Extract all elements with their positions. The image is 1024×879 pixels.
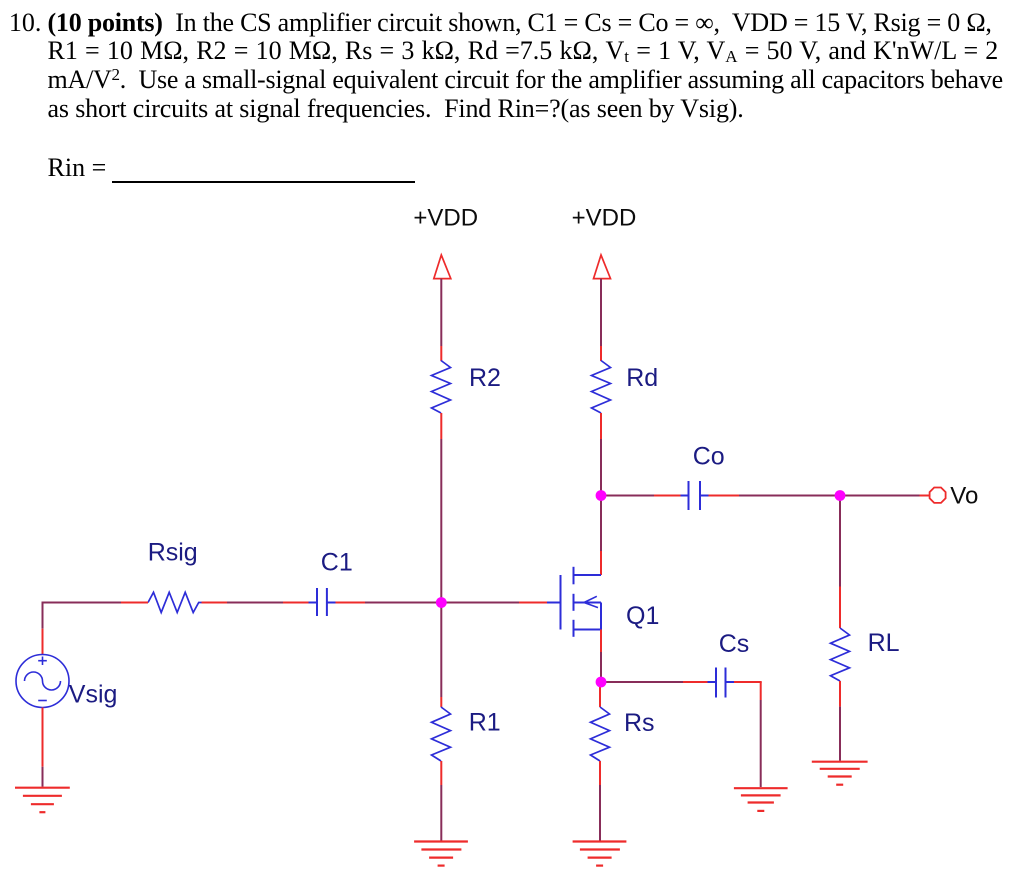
svg-text:+VDD: +VDD — [572, 204, 637, 231]
junction gate node — [436, 597, 447, 608]
wire VDD1 to R2 — [440, 279, 442, 346]
svg-text:Rd: Rd — [626, 364, 658, 392]
pin Rsig right — [202, 602, 228, 604]
capacitor Cs — [708, 668, 735, 698]
wire drain node right — [601, 495, 654, 497]
pin R1 bottom — [440, 761, 442, 785]
capacitor Co — [681, 481, 709, 510]
svg-text:Co: Co — [693, 443, 725, 471]
pin R2 top — [440, 346, 442, 361]
VDD arrow 2 — [594, 255, 611, 279]
svg-text:R2: R2 — [469, 364, 501, 392]
wire Rs to ground — [599, 785, 601, 841]
off-page connector Vo octagon — [930, 488, 946, 503]
wire C1 to gate node — [365, 602, 441, 604]
resistor Rsig — [148, 592, 202, 612]
resistor Rs — [591, 707, 610, 761]
transistor Q1 — [547, 567, 601, 637]
pin C1 left — [283, 602, 309, 604]
wire VDD2 to Rd — [600, 279, 602, 346]
ground Cs — [734, 788, 788, 811]
svg-text:Rs: Rs — [624, 709, 655, 737]
wire RL node down — [839, 496, 841, 587]
ground Rs — [573, 842, 627, 866]
pin Q1 source — [600, 630, 602, 653]
wire corner down — [760, 682, 762, 700]
pin Rsig left — [121, 602, 148, 604]
pin RL top — [839, 587, 841, 629]
pin R1 top — [440, 697, 442, 707]
svg-text:Cs: Cs — [719, 630, 750, 658]
wire gate node to gate — [441, 602, 519, 604]
resistor RL — [831, 628, 850, 681]
wire corner down — [42, 602, 44, 629]
wire source node right — [601, 681, 683, 683]
resistor R1 — [432, 707, 451, 761]
wire RL node to Vo — [840, 495, 920, 497]
svg-text:C1: C1 — [321, 549, 353, 577]
svg-text:Q1: Q1 — [626, 602, 659, 630]
wire corner to Rsig — [42, 602, 122, 604]
svg-text:RL: RL — [868, 629, 900, 657]
wire RL to ground — [839, 707, 841, 761]
wire Cs to corner — [734, 681, 762, 683]
ground RL — [812, 762, 868, 785]
ground R1 — [414, 842, 468, 866]
junction RL node — [835, 490, 846, 501]
pin Q1 drain — [600, 551, 602, 575]
pin R2 bottom — [440, 413, 442, 439]
pin C1 right — [336, 602, 366, 604]
wire R1 to ground — [440, 785, 442, 841]
wire Rsig to C1 — [227, 602, 283, 604]
pin Rd top — [600, 346, 602, 361]
source Vsig — [16, 655, 69, 708]
pin Vsig minus — [42, 708, 44, 767]
wire Rd to drain node — [600, 439, 602, 496]
VDD arrow 1 — [434, 255, 451, 279]
wire source node down — [600, 682, 602, 687]
wire R2 bottom to gate node — [440, 439, 442, 603]
capacitor C1 — [309, 588, 336, 616]
resistor R2 — [432, 361, 451, 414]
wire Co to RL node — [709, 495, 740, 497]
svg-text:Vsig: Vsig — [69, 681, 118, 709]
svg-text:Vo: Vo — [950, 483, 978, 510]
junction drain node — [596, 490, 607, 501]
svg-text:Rsig: Rsig — [148, 539, 198, 567]
junction source node — [596, 677, 607, 688]
pin Rs top — [599, 687, 601, 707]
wire source to node — [600, 652, 602, 682]
wire Vsig to ground — [42, 767, 44, 787]
wire gate node down — [440, 603, 442, 698]
wire drain node down — [600, 496, 602, 559]
svg-text:R1: R1 — [469, 709, 501, 737]
pin Q1 gate — [519, 602, 547, 604]
ground Vsig — [15, 788, 70, 813]
pin Vsig plus — [42, 629, 44, 655]
resistor Rd — [592, 361, 611, 414]
pin RL bottom — [839, 681, 841, 707]
svg-text:+VDD: +VDD — [413, 204, 478, 231]
pin Rs bottom — [599, 761, 601, 785]
pin Cs left — [683, 681, 708, 683]
pin Co left — [654, 495, 681, 497]
pin Rd bottom — [600, 413, 602, 439]
